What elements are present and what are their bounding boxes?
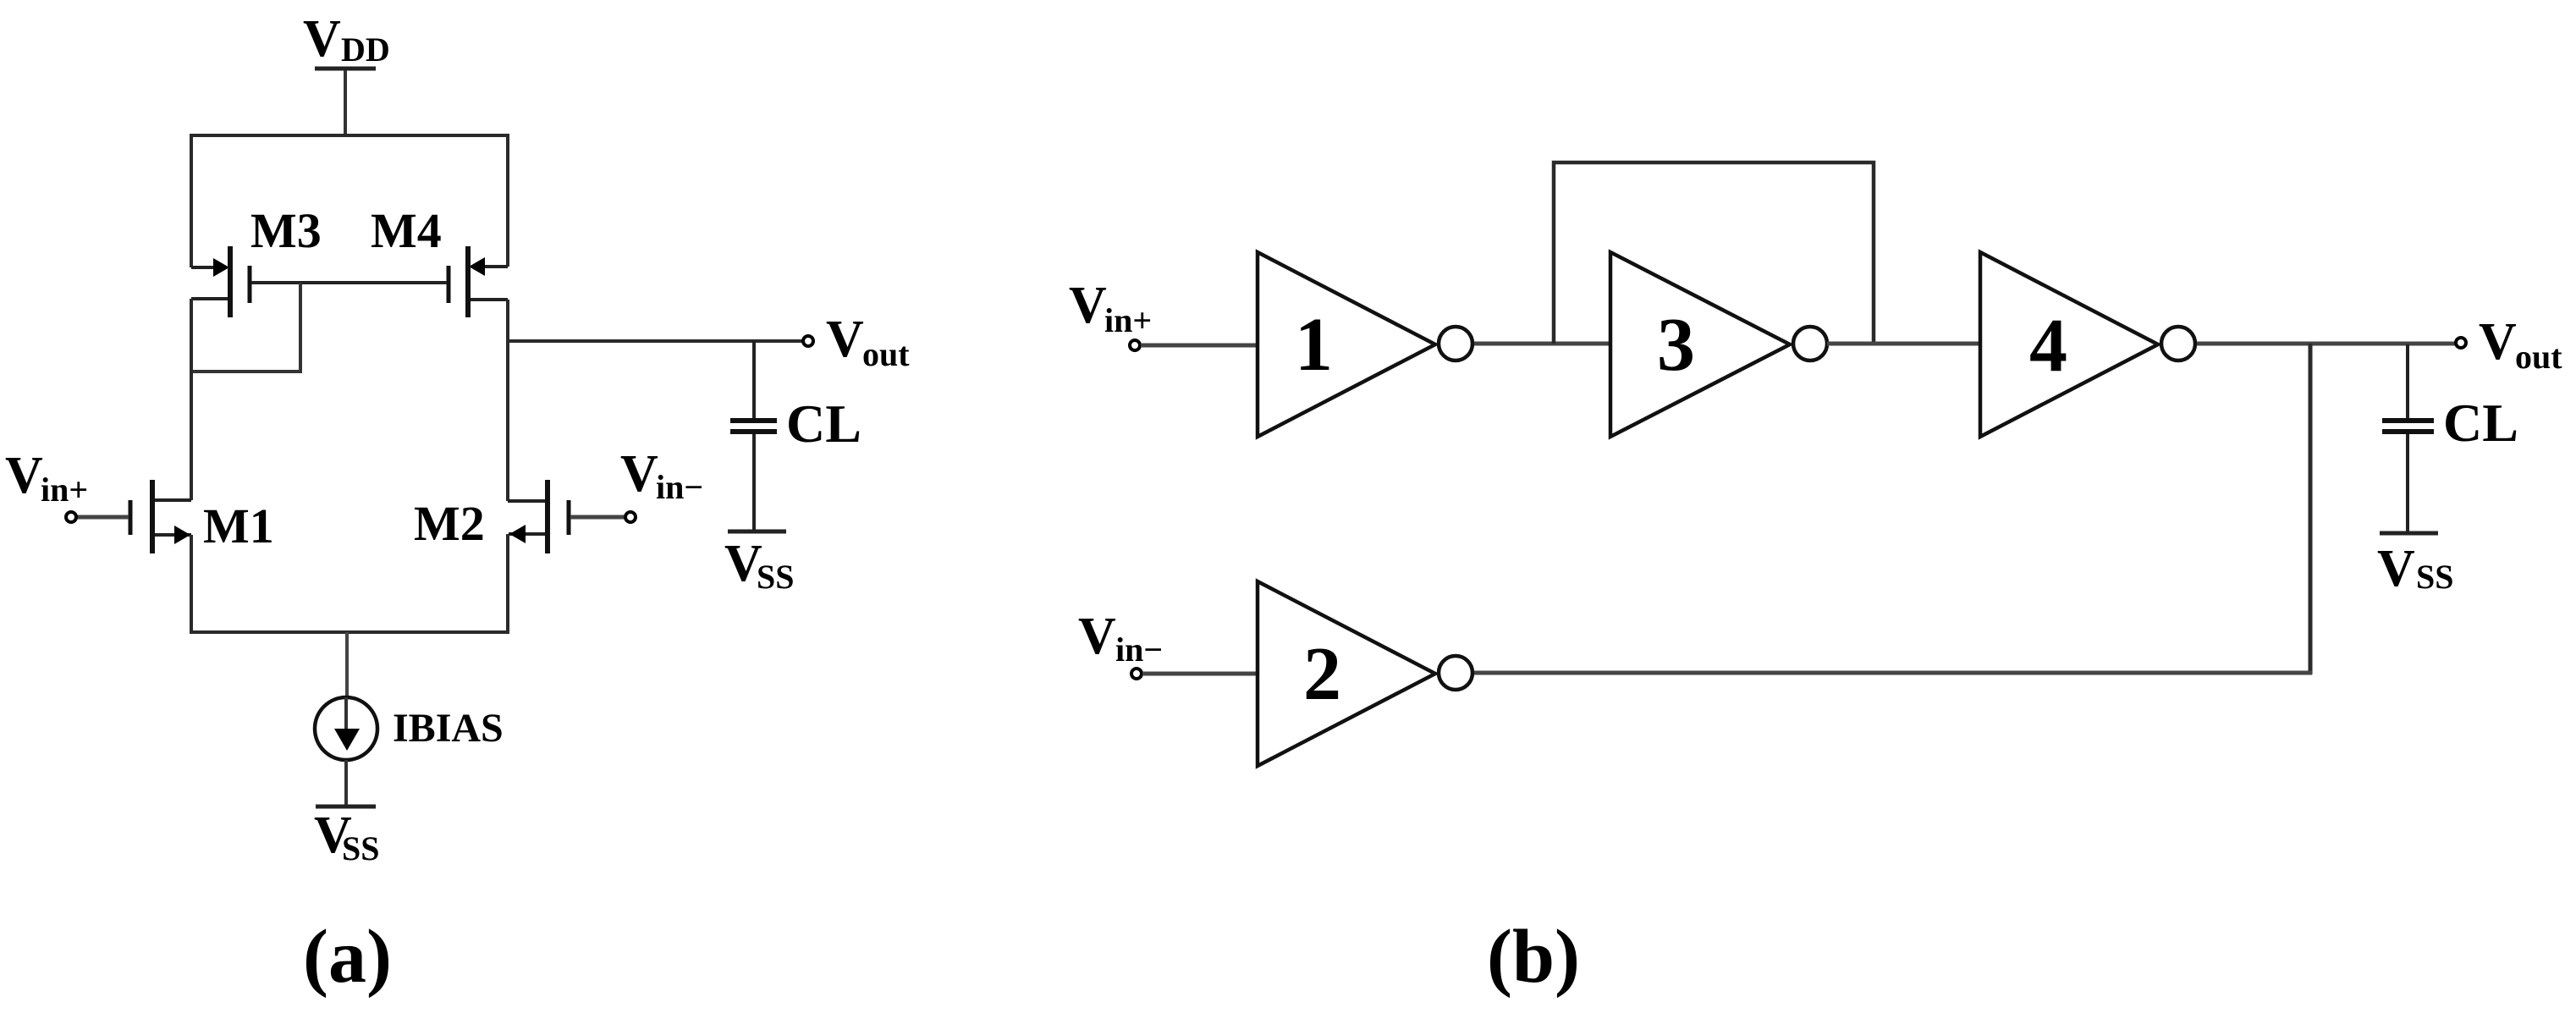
svg-text:DD: DD: [341, 30, 390, 69]
svg-text:V: V: [2377, 540, 2415, 597]
node Vout label (b): [2479, 313, 2562, 376]
inverter 3: [1610, 252, 1827, 437]
node Vin+ label: [5, 447, 88, 509]
node Vout label (a): [826, 311, 910, 373]
wire right rail bottom: [506, 534, 509, 634]
node VSS label (tail): [314, 807, 380, 867]
VSS supply bar (b): [2380, 531, 2438, 536]
svg-text:SS: SS: [342, 829, 380, 867]
wire input to inverter 2: [1142, 672, 1258, 676]
svg-text:V: V: [1078, 608, 1116, 665]
svg-text:out: out: [2515, 338, 2562, 376]
svg-text:V: V: [1069, 277, 1107, 334]
node Vin- label (b): [1078, 608, 1163, 669]
svg-text:SS: SS: [757, 558, 795, 596]
wire M2 gate: [570, 515, 625, 520]
svg-text:IBIAS: IBIAS: [393, 706, 504, 751]
inverter 4: [1980, 252, 2195, 437]
node Vin- terminal (b): [1131, 669, 1142, 679]
svg-text:out: out: [862, 335, 910, 373]
wire feedback loop around inverter 3: [1554, 162, 1874, 344]
svg-text:V: V: [620, 445, 658, 503]
svg-text:M1: M1: [203, 498, 274, 553]
transistor M2: [414, 480, 569, 553]
svg-text:V: V: [2479, 313, 2517, 371]
svg-text:M2: M2: [414, 496, 485, 551]
node Vin+ terminal (b): [1130, 340, 1140, 350]
node Vout terminal (b): [2456, 338, 2466, 348]
wire inverter2 output to junction: [1474, 671, 2312, 675]
capacitor CL (b): [2382, 344, 2518, 531]
svg-text:SS: SS: [2416, 558, 2454, 596]
node Vin+ terminal: [66, 512, 76, 522]
VSS supply bar (tail): [316, 805, 376, 809]
wire inverter4 to Vout: [2197, 342, 2455, 346]
transistor M1: [130, 480, 274, 553]
VDD supply bar: [315, 67, 376, 71]
wire bottom rail: [190, 630, 509, 634]
svg-text:V: V: [826, 311, 864, 368]
svg-text:in+: in+: [41, 471, 88, 509]
wire input to inverter 1: [1141, 344, 1258, 348]
node Vin- label: [620, 445, 703, 506]
svg-text:in−: in−: [1115, 630, 1163, 669]
wire right rail mid: [506, 300, 509, 501]
node VDD label: [303, 10, 390, 69]
svg-text:3: 3: [1657, 303, 1695, 387]
wire inverter3 to inverter4: [1827, 342, 1980, 346]
svg-text:CL: CL: [786, 394, 861, 454]
transistor M3: [191, 203, 322, 317]
svg-text:M4: M4: [371, 203, 442, 258]
current source IBIAS: [315, 697, 504, 760]
wire inverter1 to inverter3: [1474, 342, 1610, 346]
svg-text:(a): (a): [303, 915, 392, 999]
svg-text:(b): (b): [1487, 915, 1580, 999]
transistor M4: [371, 203, 508, 317]
svg-text:4: 4: [2029, 304, 2067, 388]
capacitor CL (a): [730, 341, 861, 530]
svg-text:in−: in−: [656, 468, 703, 506]
wire left rail mid: [190, 299, 193, 500]
node Vout terminal (a): [803, 336, 813, 346]
wire top rail: [191, 135, 508, 267]
wire VDD stem: [344, 70, 347, 137]
node Vin+ label (b): [1069, 277, 1152, 339]
wire below IBIAS: [344, 760, 348, 807]
node VSS label (a, under CL): [724, 535, 795, 596]
wire tail: [345, 632, 349, 697]
svg-text:in+: in+: [1104, 301, 1152, 339]
VSS supply bar (a, under CL): [728, 530, 786, 534]
node Vin- terminal: [625, 512, 636, 522]
inverter 1: [1258, 252, 1472, 437]
svg-text:2: 2: [1303, 632, 1341, 716]
wire junction down to inverter 2 output: [2309, 344, 2313, 674]
svg-text:CL: CL: [2443, 393, 2518, 453]
wire Vout (a): [508, 339, 802, 343]
inverter 2: [1258, 581, 1472, 766]
wire M1 gate: [77, 515, 129, 520]
svg-text:1: 1: [1295, 303, 1333, 387]
wire gate bus M3-M4: [251, 281, 447, 284]
wire left rail bottom: [190, 535, 193, 634]
svg-text:V: V: [5, 447, 43, 504]
svg-text:M3: M3: [250, 203, 322, 258]
wire diode connection M3 gate to drain: [191, 283, 300, 372]
svg-text:V: V: [303, 10, 341, 68]
node VSS label (b): [2377, 540, 2454, 597]
